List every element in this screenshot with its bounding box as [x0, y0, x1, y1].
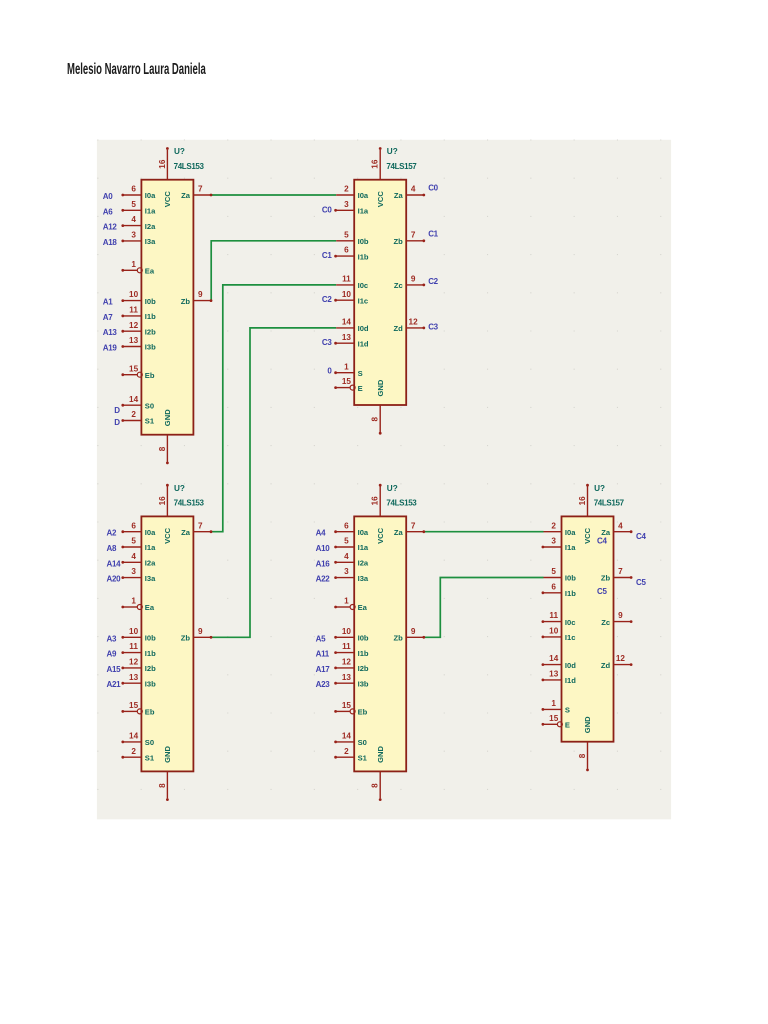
svg-text:10: 10 [342, 627, 352, 636]
svg-text:3: 3 [344, 567, 349, 576]
svg-text:Za: Za [181, 528, 191, 537]
svg-text:U?: U? [174, 484, 185, 493]
U1 pin 6 (I0a) [123, 194, 141, 196]
U2 GND pin 8 [379, 405, 381, 432]
IC U3 74LS153 body [141, 516, 193, 771]
svg-text:D: D [114, 418, 120, 427]
svg-text:Za: Za [394, 528, 404, 537]
svg-text:2: 2 [131, 410, 136, 419]
svg-text:2: 2 [344, 747, 349, 756]
U3 pin 14 (S0) [123, 741, 141, 743]
U5 pin 13 (I1d) [544, 679, 562, 681]
wire U4.Za(7) to U5.I0a(2) [423, 531, 543, 533]
svg-text:1: 1 [551, 699, 556, 708]
svg-text:A15: A15 [107, 665, 122, 674]
svg-text:14: 14 [129, 395, 139, 404]
svg-text:14: 14 [342, 318, 352, 327]
svg-text:I2b: I2b [145, 664, 156, 673]
svg-text:9: 9 [411, 275, 416, 284]
U5 pin 2 (I0a) [544, 531, 562, 533]
svg-text:C1: C1 [322, 251, 332, 260]
svg-text:I1a: I1a [358, 543, 369, 552]
svg-text:13: 13 [342, 673, 352, 682]
U3 pin 6 (I0a) [123, 531, 141, 533]
svg-text:9: 9 [198, 627, 203, 636]
U3 pin 2 (S1) [123, 756, 141, 758]
svg-text:A14: A14 [107, 559, 122, 568]
svg-text:A16: A16 [316, 559, 331, 568]
U4 pin 5 (I1a) [336, 546, 354, 548]
wire U1.Za(7) to U2.I0a(2) [210, 194, 336, 196]
U4 pin 11 (I1b) [336, 652, 354, 654]
U1 pin 9 (Zb) [193, 300, 210, 302]
U3 pin 10 (I0b) [123, 636, 141, 638]
U4 VCC pin 16 [379, 486, 381, 516]
grid dots (decorative) [97, 140, 661, 789]
svg-text:I3b: I3b [145, 343, 156, 352]
U3 pin 1 (Ea) [123, 606, 137, 608]
svg-text:1: 1 [344, 597, 349, 606]
svg-text:Za: Za [394, 191, 404, 200]
U1 VCC pin 16 [166, 150, 168, 180]
svg-text:A6: A6 [103, 207, 113, 216]
svg-text:74LS157: 74LS157 [594, 499, 625, 508]
svg-text:7: 7 [618, 567, 623, 576]
svg-text:A19: A19 [103, 344, 118, 353]
IC U5 74LS157 body [562, 516, 614, 741]
svg-text:C0: C0 [322, 205, 332, 214]
svg-text:Zb: Zb [601, 574, 611, 583]
svg-text:I2b: I2b [145, 327, 156, 336]
svg-text:2: 2 [344, 185, 349, 194]
U3 pin 15 (Eb) [123, 710, 137, 712]
IC U4 74LS153 body [354, 516, 406, 771]
svg-text:S1: S1 [145, 753, 155, 762]
U4 pin 1 (Ea) [336, 606, 350, 608]
svg-text:S0: S0 [145, 738, 154, 747]
U2 pin 6 (I1b) [336, 255, 354, 257]
U1 GND pin 8 [166, 435, 168, 462]
U1 pin 15 (Eb) [123, 374, 137, 376]
U1 pin 10 (I0b) [123, 300, 141, 302]
svg-text:15: 15 [342, 701, 352, 710]
U2 pin 4 (Za) [406, 194, 423, 196]
U4 pin 9 (Zb) [406, 636, 423, 638]
svg-text:3: 3 [131, 567, 136, 576]
U4 pin 12 (I2b) [336, 667, 354, 669]
svg-text:Zb: Zb [394, 237, 404, 246]
U4 pin 4 (I2a) [336, 561, 354, 563]
svg-text:A10: A10 [316, 544, 331, 553]
svg-text:4: 4 [131, 215, 136, 224]
U1 pin 4 (I2a) [123, 225, 141, 227]
svg-text:I2a: I2a [358, 559, 369, 568]
U3 pin 9 (Zb) [193, 636, 210, 638]
svg-text:I0b: I0b [145, 297, 156, 306]
svg-text:1: 1 [131, 597, 136, 606]
svg-text:I0a: I0a [358, 191, 369, 200]
svg-text:5: 5 [131, 200, 136, 209]
svg-text:Zb: Zb [394, 634, 404, 643]
svg-text:Zb: Zb [181, 634, 191, 643]
svg-text:A2: A2 [107, 529, 117, 538]
svg-text:Zd: Zd [394, 324, 404, 333]
U2 pin 14 (I0d) [336, 327, 354, 329]
U5 pin 15 (E) [544, 723, 558, 725]
svg-text:I3a: I3a [145, 237, 156, 246]
wire U4.Zb(9) to U5.I0b(5) [423, 578, 543, 638]
U5 pin 6 (I1b) [544, 592, 562, 594]
svg-text:8: 8 [371, 783, 380, 788]
U3 VCC pin 16 [166, 486, 168, 516]
svg-text:A18: A18 [103, 238, 118, 247]
wire U3.Za(7) to U2.I0c(11) [210, 285, 336, 532]
IC U1 74LS153 body [141, 180, 193, 435]
svg-text:I0c: I0c [565, 618, 576, 627]
svg-text:VCC: VCC [163, 191, 172, 208]
U5 pin 12 (Zd) [614, 664, 631, 666]
U1 pin 11 (I1b) [123, 315, 141, 317]
svg-text:I1b: I1b [358, 252, 369, 261]
svg-text:1: 1 [344, 362, 349, 371]
U3 pin 12 (I2b) [123, 667, 141, 669]
svg-text:I0b: I0b [145, 634, 156, 643]
svg-text:8: 8 [578, 753, 587, 758]
svg-text:A13: A13 [103, 328, 118, 337]
svg-text:9: 9 [411, 627, 416, 636]
U5 pin 7 (Zb) [614, 577, 631, 579]
U2 pin 7 (Zb) [406, 240, 423, 242]
U4 pin 6 (I0a) [336, 531, 354, 533]
svg-text:I3a: I3a [358, 574, 369, 583]
svg-text:Ea: Ea [358, 603, 368, 612]
svg-text:I1c: I1c [358, 296, 369, 305]
svg-text:2: 2 [551, 521, 556, 530]
svg-text:7: 7 [411, 521, 416, 530]
svg-text:8: 8 [158, 446, 167, 451]
svg-text:4: 4 [618, 521, 623, 530]
svg-text:7: 7 [411, 230, 416, 239]
svg-text:E: E [358, 384, 363, 393]
svg-text:5: 5 [344, 537, 349, 546]
svg-text:8: 8 [158, 783, 167, 788]
svg-text:C2: C2 [428, 277, 438, 286]
svg-text:5: 5 [551, 567, 556, 576]
svg-text:13: 13 [549, 670, 559, 679]
svg-text:I1a: I1a [145, 207, 156, 216]
svg-text:U?: U? [387, 484, 398, 493]
U3 pin 13 (I3b) [123, 682, 141, 684]
U4 pin 3 (I3a) [336, 577, 354, 579]
svg-text:VCC: VCC [376, 191, 385, 208]
U4 pin 2 (S1) [336, 756, 354, 758]
U3 GND pin 8 [166, 771, 168, 798]
svg-text:74LS157: 74LS157 [386, 162, 417, 171]
svg-text:11: 11 [129, 306, 138, 315]
U2 pin 3 (I1a) [336, 209, 354, 211]
U5 GND pin 8 [587, 742, 589, 769]
svg-text:I3b: I3b [145, 679, 156, 688]
svg-text:I0b: I0b [358, 237, 369, 246]
svg-text:C2: C2 [322, 295, 332, 304]
svg-text:15: 15 [549, 714, 559, 723]
svg-text:Zd: Zd [601, 661, 611, 670]
svg-text:I0d: I0d [565, 661, 576, 670]
svg-text:A17: A17 [316, 665, 331, 674]
svg-text:C5: C5 [597, 587, 607, 596]
svg-text:I0c: I0c [358, 281, 369, 290]
svg-text:A8: A8 [107, 544, 117, 553]
svg-text:A21: A21 [107, 680, 122, 689]
svg-text:I3b: I3b [358, 679, 369, 688]
svg-text:A20: A20 [107, 575, 122, 584]
svg-text:Ea: Ea [145, 603, 155, 612]
svg-text:A23: A23 [316, 680, 331, 689]
svg-text:I0a: I0a [145, 528, 156, 537]
svg-text:13: 13 [129, 336, 139, 345]
svg-text:I1d: I1d [358, 339, 369, 348]
svg-text:11: 11 [549, 611, 558, 620]
U5 pin 11 (I0c) [544, 621, 562, 623]
U1 pin 5 (I1a) [123, 209, 141, 211]
svg-text:GND: GND [163, 746, 172, 763]
svg-text:GND: GND [376, 379, 385, 396]
svg-text:10: 10 [129, 290, 139, 299]
U5 pin 14 (I0d) [544, 664, 562, 666]
svg-text:4: 4 [411, 185, 416, 194]
IC U2 74LS157 body [354, 180, 406, 405]
svg-text:S0: S0 [145, 401, 154, 410]
U2 pin 9 (Zc) [406, 284, 423, 286]
svg-text:A12: A12 [103, 223, 118, 232]
svg-text:12: 12 [342, 658, 352, 667]
svg-text:A22: A22 [316, 575, 331, 584]
wire U3.Zb(9) to U2.I0d(14) [210, 328, 336, 637]
U3 pin 3 (I3a) [123, 577, 141, 579]
svg-text:12: 12 [409, 318, 419, 327]
svg-text:I3a: I3a [145, 574, 156, 583]
svg-text:D: D [114, 406, 120, 415]
svg-text:11: 11 [342, 642, 351, 651]
U1 pin 2 (S1) [123, 420, 141, 422]
svg-text:A11: A11 [316, 650, 330, 659]
svg-text:U?: U? [594, 484, 605, 493]
svg-text:3: 3 [344, 200, 349, 209]
svg-text:A7: A7 [103, 313, 113, 322]
U5 VCC pin 16 [587, 486, 589, 516]
svg-text:I1a: I1a [145, 543, 156, 552]
svg-text:12: 12 [129, 321, 139, 330]
svg-text:9: 9 [198, 290, 203, 299]
svg-text:14: 14 [342, 732, 352, 741]
U3 pin 4 (I2a) [123, 561, 141, 563]
U2 pin 12 (Zd) [406, 327, 423, 329]
U4 pin 7 (Za) [406, 531, 423, 533]
svg-text:16: 16 [371, 496, 380, 506]
svg-text:C3: C3 [322, 338, 332, 347]
svg-text:S1: S1 [145, 417, 155, 426]
svg-text:A9: A9 [107, 650, 117, 659]
svg-text:7: 7 [198, 521, 203, 530]
svg-text:74LS153: 74LS153 [174, 499, 205, 508]
svg-text:I0a: I0a [145, 191, 156, 200]
svg-text:I1a: I1a [565, 543, 576, 552]
svg-text:I0a: I0a [565, 528, 576, 537]
U1 pin 3 (I3a) [123, 240, 141, 242]
svg-text:Eb: Eb [358, 708, 368, 717]
svg-text:7: 7 [198, 185, 203, 194]
svg-text:S1: S1 [358, 753, 368, 762]
svg-text:14: 14 [549, 654, 559, 663]
svg-text:E: E [565, 721, 570, 730]
svg-text:A5: A5 [316, 634, 326, 643]
U5 pin 5 (I0b) [544, 577, 562, 579]
svg-text:15: 15 [129, 701, 139, 710]
svg-text:GND: GND [583, 716, 592, 733]
svg-text:Eb: Eb [145, 708, 155, 717]
U2 pin 10 (I1c) [336, 299, 354, 301]
U5 pin 9 (Zc) [614, 621, 631, 623]
svg-text:16: 16 [158, 496, 167, 506]
svg-text:10: 10 [549, 627, 559, 636]
svg-text:C3: C3 [428, 323, 438, 332]
U5 pin 3 (I1a) [544, 546, 562, 548]
U1 pin 1 (Ea) [123, 269, 137, 271]
svg-text:6: 6 [551, 582, 556, 591]
U1 pin 12 (I2b) [123, 330, 141, 332]
U2 pin 5 (I0b) [336, 240, 354, 242]
svg-text:16: 16 [371, 159, 380, 169]
svg-text:3: 3 [551, 537, 556, 546]
svg-text:U?: U? [387, 147, 398, 156]
svg-text:I1d: I1d [565, 676, 576, 685]
svg-text:I1b: I1b [358, 649, 369, 658]
U4 pin 13 (I3b) [336, 682, 354, 684]
svg-text:C0: C0 [428, 184, 438, 193]
svg-text:Zc: Zc [394, 281, 403, 290]
svg-text:A0: A0 [103, 192, 113, 201]
svg-text:74LS153: 74LS153 [386, 499, 417, 508]
svg-text:C1: C1 [428, 229, 438, 238]
svg-text:13: 13 [342, 333, 352, 342]
svg-text:8: 8 [371, 417, 380, 422]
U2 pin 2 (I0a) [336, 194, 354, 196]
svg-text:I2b: I2b [358, 664, 369, 673]
svg-text:6: 6 [344, 246, 349, 255]
svg-text:15: 15 [342, 377, 352, 386]
svg-text:I0b: I0b [565, 574, 576, 583]
svg-text:I0a: I0a [358, 528, 369, 537]
svg-text:6: 6 [131, 521, 136, 530]
svg-text:A4: A4 [316, 529, 326, 538]
title text [67, 61, 206, 79]
svg-text:S: S [358, 369, 363, 378]
svg-text:S: S [565, 706, 570, 715]
U2 pin 15 (E) [336, 387, 350, 389]
svg-text:I0d: I0d [358, 324, 369, 333]
U2 VCC pin 16 [379, 150, 381, 180]
svg-text:C4: C4 [636, 532, 646, 541]
svg-text:I0b: I0b [358, 634, 369, 643]
U3 pin 5 (I1a) [123, 546, 141, 548]
U3 pin 11 (I1b) [123, 652, 141, 654]
svg-text:VCC: VCC [163, 527, 172, 544]
svg-text:3: 3 [131, 231, 136, 240]
U4 pin 15 (Eb) [336, 710, 350, 712]
svg-text:11: 11 [129, 642, 138, 651]
svg-text:GND: GND [163, 409, 172, 426]
svg-text:4: 4 [344, 552, 349, 561]
svg-text:I2a: I2a [145, 222, 156, 231]
svg-text:Zb: Zb [181, 297, 191, 306]
svg-text:Ea: Ea [145, 267, 155, 276]
svg-text:S0: S0 [358, 738, 367, 747]
svg-text:C5: C5 [636, 578, 646, 587]
svg-text:Za: Za [181, 191, 191, 200]
svg-text:1: 1 [131, 260, 136, 269]
svg-text:6: 6 [344, 521, 349, 530]
svg-text:16: 16 [578, 496, 587, 506]
svg-text:U?: U? [174, 147, 185, 156]
svg-text:14: 14 [129, 732, 139, 741]
svg-text:A3: A3 [107, 634, 117, 643]
U4 pin 10 (I0b) [336, 636, 354, 638]
U1 pin 13 (I3b) [123, 346, 141, 348]
wire U1.Zb(9) to U2.I0b(5) [210, 241, 336, 301]
svg-text:GND: GND [376, 746, 385, 763]
U3 pin 7 (Za) [193, 531, 210, 533]
svg-text:Eb: Eb [145, 371, 155, 380]
svg-text:VCC: VCC [376, 527, 385, 544]
U5 pin 10 (I1c) [544, 636, 562, 638]
schematic canvas background [97, 140, 671, 820]
svg-text:11: 11 [342, 275, 351, 284]
svg-text:I1b: I1b [145, 649, 156, 658]
svg-text:C4: C4 [597, 536, 607, 545]
svg-text:10: 10 [129, 627, 139, 636]
U2 pin 11 (I0c) [336, 284, 354, 286]
svg-text:9: 9 [618, 611, 623, 620]
svg-text:6: 6 [131, 185, 136, 194]
U1 pin 7 (Za) [193, 194, 210, 196]
svg-text:12: 12 [616, 654, 626, 663]
U2 pin 13 (I1d) [336, 342, 354, 344]
svg-text:5: 5 [344, 230, 349, 239]
svg-text:2: 2 [131, 747, 136, 756]
svg-text:10: 10 [342, 290, 352, 299]
svg-text:Zc: Zc [601, 618, 610, 627]
svg-text:A1: A1 [103, 298, 113, 307]
svg-text:I1a: I1a [358, 207, 369, 216]
svg-text:16: 16 [158, 159, 167, 169]
U4 pin 14 (S0) [336, 741, 354, 743]
U1 pin 14 (S0) [123, 404, 141, 406]
svg-text:I1b: I1b [145, 312, 156, 321]
svg-text:5: 5 [131, 537, 136, 546]
svg-text:74LS153: 74LS153 [174, 162, 205, 171]
svg-text:12: 12 [129, 658, 139, 667]
svg-text:13: 13 [129, 673, 139, 682]
svg-text:4: 4 [131, 552, 136, 561]
U4 GND pin 8 [379, 771, 381, 798]
svg-text:VCC: VCC [583, 527, 592, 544]
svg-text:I1c: I1c [565, 633, 576, 642]
svg-text:I1b: I1b [565, 589, 576, 598]
svg-text:15: 15 [129, 364, 139, 373]
svg-text:I2a: I2a [145, 559, 156, 568]
U5 pin 1 (S) [544, 708, 562, 710]
U2 pin 1 (S) [336, 372, 354, 374]
